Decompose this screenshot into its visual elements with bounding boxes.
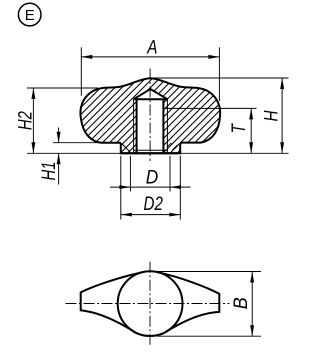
svg-text:H2: H2 [14,111,36,130]
svg-text:H1: H1 [38,162,60,181]
svg-text:H: H [261,110,283,122]
svg-text:T: T [228,122,250,133]
svg-text:A: A [146,37,157,59]
svg-text:D: D [146,167,159,189]
svg-text:B: B [230,297,252,309]
svg-text:E: E [25,7,35,24]
svg-text:D2: D2 [144,193,163,215]
